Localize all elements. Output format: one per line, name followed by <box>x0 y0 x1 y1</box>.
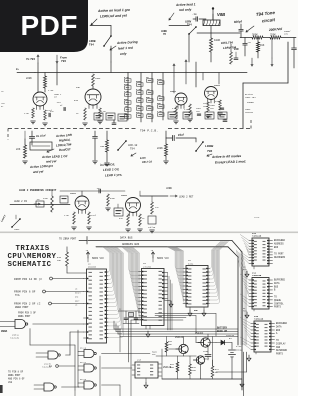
svg-text:LDRV: LDRV <box>14 228 20 231</box>
component box lead2 <box>60 196 68 203</box>
tube V6 <box>121 194 141 216</box>
label to-zbra-port <box>59 237 87 245</box>
resistor 142 <box>148 196 159 233</box>
title triaxis <box>8 245 57 269</box>
svg-text:300K: 300K <box>252 33 258 36</box>
PDF badge <box>0 0 88 52</box>
resistor 220K-right <box>157 138 168 164</box>
svg-text:LEAD 2 OVERDRIVE CIRCUIT: LEAD 2 OVERDRIVE CIRCUIT <box>19 189 57 192</box>
svg-text:91K: 91K <box>260 44 265 47</box>
svg-text:74HC245: 74HC245 <box>254 318 264 321</box>
labels under V4 extra <box>196 104 224 115</box>
battery wires <box>156 334 216 379</box>
svg-text:DECODERS: DECODERS <box>274 256 286 259</box>
transistor Q1 <box>175 336 188 354</box>
svg-text:LRRB: LRRB <box>166 187 172 190</box>
resistor R19 <box>170 356 179 379</box>
label U11B <box>42 363 52 369</box>
label lead2-in <box>10 200 70 205</box>
transistor Q3 <box>163 356 205 369</box>
wire mid pcb <box>93 131 98 164</box>
svg-text:U11:D: U11:D <box>80 378 87 381</box>
svg-text:26B: 26B <box>100 145 105 148</box>
components under V1 <box>24 108 53 126</box>
IC U3 bottom pins <box>146 326 150 338</box>
svg-text:Active lead 1: Active lead 1 <box>175 2 196 7</box>
svg-text:To T94: To T94 <box>26 57 35 61</box>
components under V5 <box>64 212 97 230</box>
svg-text:1618: 1618 <box>254 216 260 219</box>
routing wires upper <box>129 314 217 367</box>
svg-text:T94 P.C.B.: T94 P.C.B. <box>140 130 158 133</box>
svg-text:.02: .02 <box>247 41 252 44</box>
svg-text:100K: 100K <box>95 77 101 80</box>
tube V4 <box>205 84 221 103</box>
wire node A <box>90 26 111 37</box>
svg-text:U13: U13 <box>137 359 142 362</box>
svg-text:220K: 220K <box>26 77 32 80</box>
svg-text:PORTS: PORTS <box>276 353 284 356</box>
gate U11F <box>78 378 120 389</box>
IC U13 body <box>135 359 158 379</box>
svg-text:MAIN VCC: MAIN VCC <box>92 257 105 260</box>
label from-T94 <box>56 55 68 63</box>
label from-pin5 <box>18 312 37 318</box>
resistor R-hatched <box>203 20 220 26</box>
capacitor 15uf-right <box>166 131 196 141</box>
wire tone bus <box>240 37 296 39</box>
svg-text:DATA BUS: DATA BUS <box>120 237 133 240</box>
svg-text:22K: 22K <box>16 148 21 151</box>
resistor 820K <box>106 194 116 211</box>
label ZBRA <box>1 330 8 333</box>
components under V6 <box>119 214 145 232</box>
component cluster mid <box>124 73 164 123</box>
relay box <box>30 142 52 150</box>
crystal X1 <box>118 308 141 324</box>
svg-text:74LS132: 74LS132 <box>10 337 20 340</box>
left margin marks <box>1 90 5 108</box>
capacitor C-top <box>192 13 206 21</box>
IC U3 gnd <box>164 300 173 307</box>
IC U13 pins <box>132 364 162 388</box>
svg-text:and yel: and yel <box>33 169 44 174</box>
label active-LDRV-power <box>245 93 256 114</box>
labels under V3 <box>172 104 192 124</box>
svg-text:U11:A: U11:A <box>80 347 87 350</box>
gate input rails <box>30 329 78 388</box>
tube V1 <box>33 89 65 113</box>
svg-text:220K: 220K <box>157 147 163 150</box>
vcc label small <box>152 349 162 379</box>
IC U4 gnd arrows <box>188 307 206 316</box>
label LDRB T94 <box>89 40 96 46</box>
svg-text:6.0m: 6.0m <box>140 156 147 160</box>
resistor 300K <box>252 33 263 39</box>
capacitor 15uf-left <box>29 131 46 145</box>
svg-text:12AX7: 12AX7 <box>70 192 77 195</box>
switch S1 <box>103 35 111 62</box>
svg-text:POWER: POWER <box>247 101 254 104</box>
svg-text:T94: T94 <box>89 43 94 46</box>
svg-text:ZBRA PORT: ZBRA PORT <box>18 315 31 318</box>
svg-text:74HC245: 74HC245 <box>252 274 262 277</box>
svg-text:22uf: 22uf <box>47 109 53 112</box>
component row boxes <box>94 112 227 121</box>
svg-text:T94: T94 <box>207 149 213 153</box>
svg-text:T94: T94 <box>61 59 66 63</box>
capacitor 1000-16v <box>284 30 296 68</box>
wire lead2 out <box>140 191 168 196</box>
svg-text:1uf/45: 1uf/45 <box>148 226 156 229</box>
svg-text:FROM PIN 14 OF (C: FROM PIN 14 OF (C <box>14 277 42 281</box>
svg-text:LDRB: LDRB <box>205 144 214 148</box>
svg-text:U12: U12 <box>8 381 13 384</box>
IC U3 ROM body <box>142 262 165 325</box>
svg-text:Z84C00: Z84C00 <box>88 266 97 269</box>
label lead2-overdrive <box>19 189 57 192</box>
IC U15 labels <box>276 322 288 356</box>
svg-text:U11:C: U11:C <box>80 361 87 364</box>
gate U11E <box>78 361 132 372</box>
power main-vcc-2 <box>151 249 170 262</box>
labels under V4 <box>203 100 222 118</box>
wires V4 area <box>111 62 219 87</box>
switch LDRB-right <box>195 138 214 156</box>
IC U12 buffer <box>240 232 272 266</box>
svg-text:lead 1 red: lead 1 red <box>118 46 133 51</box>
svg-text:PDF: PDF <box>21 10 79 41</box>
gate U11B <box>36 332 84 359</box>
svg-text:1.5K: 1.5K <box>64 214 70 217</box>
transistor Q2 <box>195 332 210 347</box>
annotation active-LDR <box>47 133 73 152</box>
svg-text:SWITCH: SWITCH <box>245 111 254 114</box>
connector from-pin-2 <box>14 301 84 309</box>
annotation active-burning <box>110 40 138 56</box>
right bus bundle <box>236 250 247 345</box>
ground rail <box>162 379 244 387</box>
svg-text:1.5K: 1.5K <box>24 112 30 115</box>
resistor R21 <box>211 360 219 379</box>
svg-text:74HC245: 74HC245 <box>252 235 262 238</box>
svg-text:C2: C2 <box>119 308 121 311</box>
data bus wire <box>88 237 242 391</box>
capacitor 500pf <box>243 38 252 57</box>
resistor 470K lead2 <box>43 190 53 212</box>
annotation T94-tone <box>246 10 276 32</box>
annotation active-lead1cd <box>29 154 68 174</box>
supply V8B <box>212 8 225 20</box>
right verticals bottom <box>216 352 247 396</box>
capacitor .02b <box>96 187 100 193</box>
IC U3 right pins <box>162 272 172 330</box>
svg-text:PORTS: PORTS <box>274 306 282 309</box>
IC U2 right pins <box>105 271 108 338</box>
svg-text:1N4148: 1N4148 <box>226 334 235 337</box>
svg-text:HL 15uf: HL 15uf <box>36 133 47 138</box>
main bus wire <box>35 72 247 74</box>
svg-text:red only: red only <box>179 8 192 12</box>
IC U12 labels <box>274 239 286 259</box>
dashed PCB border <box>8 120 251 140</box>
svg-text:and yel: and yel <box>46 159 57 163</box>
IC U4 RAM body <box>186 259 208 307</box>
svg-text:820: 820 <box>74 99 79 102</box>
svg-text:6264: 6264 <box>188 262 194 265</box>
resistor above V2 <box>92 74 101 89</box>
routing wires mid <box>114 321 238 352</box>
capacitors hanging row <box>112 119 227 124</box>
gate U11D <box>78 347 150 358</box>
annotation highcd-lead1 <box>100 162 123 177</box>
svg-text:TCA: TCA <box>15 294 20 297</box>
svg-text:22uf: 22uf <box>91 214 97 217</box>
svg-text:27C256: 27C256 <box>143 265 152 268</box>
switch lead2 <box>0 214 20 231</box>
svg-text:LEAD 2 IN: LEAD 2 IN <box>14 200 27 203</box>
resistor R18 <box>165 337 172 357</box>
svg-text:ADDRESS BUS: ADDRESS BUS <box>122 243 140 246</box>
svg-text:100uf: 100uf <box>203 358 210 361</box>
connector from-pin-6 <box>14 290 84 297</box>
svg-text:820K: 820K <box>110 197 116 200</box>
svg-text:RESET: RESET <box>75 292 82 295</box>
IC U15 gnd <box>247 352 256 361</box>
tube V2 <box>74 86 101 109</box>
svg-text:1.5K: 1.5K <box>48 89 54 92</box>
resistor 26B <box>100 131 109 166</box>
svg-text:FROM PIN 2 OF (C: FROM PIN 2 OF (C <box>14 301 41 305</box>
arrow down b <box>271 38 273 67</box>
resistor 91K <box>257 38 265 59</box>
tube V5 <box>60 191 125 214</box>
svg-text:12AX7: 12AX7 <box>214 84 221 87</box>
IC U2 pin names <box>75 288 82 307</box>
svg-text:.1m: .1m <box>192 13 197 16</box>
svg-text:V8B: V8B <box>217 12 225 17</box>
svg-text:250K: 250K <box>270 33 276 36</box>
wire verticals <box>16 63 57 92</box>
IC U15 buffer <box>240 315 274 352</box>
IC U14 buffer <box>240 271 272 309</box>
capacitor C48 <box>203 350 211 361</box>
svg-text:B+: B+ <box>16 68 20 71</box>
svg-text:NMI: NMI <box>75 296 78 299</box>
svg-text:CPU\MEMORY: CPU\MEMORY <box>8 253 57 261</box>
battery B1 <box>229 343 244 380</box>
svg-text:2N4124: 2N4124 <box>175 336 184 339</box>
svg-text:33K: 33K <box>76 86 81 89</box>
IC U14 labels <box>274 279 286 309</box>
components under V2 <box>76 108 106 126</box>
label lead2-ret <box>170 195 194 199</box>
wire right border <box>243 42 288 128</box>
IC U2 pin fan <box>103 247 124 338</box>
gate U11C <box>34 383 79 391</box>
annotation active-lead1-red <box>169 2 196 20</box>
diode D1 <box>216 334 235 345</box>
svg-text:10K: 10K <box>57 259 62 262</box>
svg-text:T94: T94 <box>130 148 135 151</box>
wire drops bottom <box>75 356 131 396</box>
IC U2 CPU body <box>87 263 107 344</box>
label battery-backup <box>217 327 228 333</box>
svg-text:1M/1,T94: 1M/1,T94 <box>221 40 233 45</box>
IC U14 gnd <box>243 307 254 318</box>
resistor 22K-left <box>16 131 27 164</box>
svg-text:TRIAXIS: TRIAXIS <box>16 245 50 253</box>
svg-text:100K: 100K <box>214 39 221 42</box>
annotation active-all-modes <box>211 154 246 165</box>
gain box <box>114 204 123 216</box>
resistor 220K <box>26 73 47 93</box>
connector from-pin-14 <box>14 277 84 281</box>
label to-T94 <box>26 55 39 63</box>
svg-text:only: only <box>120 52 127 56</box>
label LRRB <box>166 187 172 190</box>
IC U4 left pins fan <box>167 247 188 304</box>
arrows up pair <box>173 60 187 93</box>
power main-vcc-1 <box>86 249 105 262</box>
svg-text:2N4402: 2N4402 <box>195 332 204 335</box>
IC U2 left pins <box>84 278 89 339</box>
resistor 250K <box>270 33 281 39</box>
capacitor .02 lead2 <box>36 198 44 207</box>
svg-text:NICAD: NICAD <box>236 348 243 351</box>
label U10A <box>10 334 20 340</box>
transistor Q-top <box>161 21 197 63</box>
IC U12 gnd <box>243 266 254 278</box>
svg-text:TO ZBRA PORT: TO ZBRA PORT <box>59 238 77 241</box>
resistor R20 <box>189 356 197 379</box>
svg-text:HB 2 Cd: HB 2 Cd <box>142 159 153 164</box>
svg-text:16v: 16v <box>284 33 289 36</box>
switch LDR12 <box>117 140 152 164</box>
svg-text:SCHEMATIC: SCHEMATIC <box>8 261 52 269</box>
annotation 200K-vol <box>268 27 283 32</box>
svg-text:600pf: 600pf <box>234 19 243 24</box>
page number 1618 <box>254 216 260 219</box>
svg-text:BACK UP: BACK UP <box>217 330 228 333</box>
text to-pin8 <box>8 371 25 385</box>
resistor R16 <box>57 247 87 273</box>
wire from hatched box <box>197 14 240 33</box>
svg-text:ZBRA: ZBRA <box>1 330 8 333</box>
svg-text:ZBRA PORT: ZBRA PORT <box>15 306 29 309</box>
svg-text:MAIN VCC: MAIN VCC <box>157 257 170 260</box>
IC U3 left pins fan <box>122 247 144 320</box>
component column x228 <box>221 40 240 64</box>
resistor 100K <box>210 33 221 62</box>
svg-text:12AX7: 12AX7 <box>121 194 128 197</box>
capacitor 600pf <box>234 19 243 37</box>
tube V3 <box>170 90 187 109</box>
address bus wire <box>96 243 238 345</box>
annotation active-on-lead1 <box>91 8 130 25</box>
svg-text:LDRV T94: LDRV T94 <box>245 96 256 99</box>
svg-text:12AX7: 12AX7 <box>170 90 177 93</box>
connector A1 <box>49 365 75 390</box>
svg-text:470K: 470K <box>43 197 49 200</box>
svg-text:BUS: BUS <box>274 246 279 249</box>
svg-text:LEAD 2 RET: LEAD 2 RET <box>179 196 194 199</box>
arrow down a <box>251 58 253 66</box>
gate U10A <box>0 320 84 329</box>
IC U4 right pins fan <box>206 242 228 305</box>
svg-text:DualCd!: DualCd! <box>59 147 71 152</box>
